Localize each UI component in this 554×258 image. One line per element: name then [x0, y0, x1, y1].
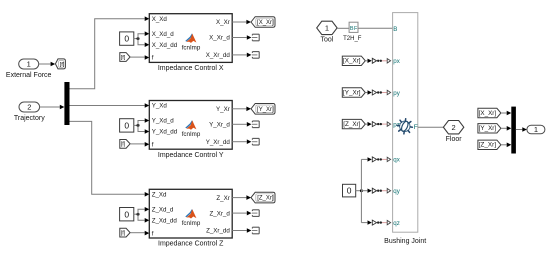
svg-text:F: F — [414, 124, 418, 131]
PS converter (qx) — [368, 157, 391, 162]
svg-text:External Force: External Force — [6, 72, 52, 79]
from [Z_Xr] to mux — [478, 140, 501, 149]
demux — [64, 82, 69, 125]
bushing port qy — [393, 188, 400, 195]
svg-text:Y_Xd: Y_Xd — [152, 103, 168, 110]
wire from to mux ([Y_Xr]) — [501, 126, 511, 131]
svg-text:[f]: [f] — [121, 231, 126, 237]
svg-text:[f]: [f] — [121, 142, 126, 148]
wire constant 0 to Z_Xd_d / Z_Xd_dd — [134, 207, 150, 223]
inport 2 Trajectory — [14, 102, 45, 122]
svg-text:Z_Xd_dd: Z_Xd_dd — [152, 218, 178, 225]
PS converter (pz) — [368, 122, 391, 127]
svg-text:2: 2 — [452, 123, 456, 132]
from f (Z axis) — [120, 228, 130, 237]
PS converter (qz) — [368, 220, 391, 225]
svg-text:0: 0 — [124, 34, 129, 44]
connection port Tool — [317, 21, 337, 43]
svg-text:X_Xr: X_Xr — [216, 19, 230, 26]
svg-text:[f]: [f] — [121, 55, 126, 61]
svg-text:[Z_Xr]: [Z_Xr] — [479, 142, 496, 149]
wire mux to outport 1 — [516, 127, 527, 132]
constant 0 (Y axis) — [120, 119, 134, 132]
svg-text:fcnImp: fcnImp — [182, 44, 201, 51]
wire Z_Xr_dd to terminator — [232, 228, 251, 233]
svg-text:Trajectory: Trajectory — [14, 115, 45, 122]
outport 1 — [527, 125, 545, 134]
wire bushing F to Floor — [418, 126, 444, 128]
from f (X axis) — [120, 53, 130, 62]
bushing port qx — [393, 157, 400, 164]
wire Y_Xr_dd to terminator — [232, 139, 251, 144]
svg-text:T2H_F: T2H_F — [343, 36, 362, 42]
svg-text:Impedance Control X: Impedance Control X — [158, 65, 224, 72]
svg-text:0: 0 — [347, 186, 352, 196]
svg-text:fcnImp: fcnImp — [182, 131, 201, 138]
bushing port pz — [393, 121, 400, 128]
wire demux to Impedance Control Y — [70, 103, 150, 108]
bushing joint block — [384, 13, 426, 245]
wire from to converter (py) — [365, 92, 367, 94]
wire Y_Xr to goto — [232, 107, 251, 112]
goto Z_Xr — [251, 192, 275, 203]
svg-text:Y_Xr_dd: Y_Xr_dd — [206, 139, 231, 146]
svg-text:Y_Xd_dd: Y_Xd_dd — [152, 129, 178, 136]
from f (Y axis) — [120, 140, 130, 149]
wire inport1 to goto f — [39, 62, 56, 67]
svg-text:f: f — [152, 55, 154, 62]
from [X_Xr] to mux — [478, 108, 501, 117]
wire demux to Impedance Control X — [70, 16, 150, 88]
svg-text:py: py — [393, 90, 400, 97]
svg-text:1: 1 — [325, 24, 329, 33]
svg-text:[Z_Xr]: [Z_Xr] — [343, 121, 360, 128]
inport 1 External Force — [6, 59, 52, 79]
svg-text:Floor: Floor — [446, 136, 463, 143]
wire constant 0 to q converters — [356, 159, 368, 222]
svg-text:Z_Xr_dd: Z_Xr_dd — [206, 228, 230, 235]
svg-text:[X_Xr]: [X_Xr] — [343, 58, 361, 65]
bushing port qz — [393, 220, 400, 227]
svg-text:qy: qy — [393, 188, 400, 195]
svg-text:f: f — [152, 142, 154, 149]
wire from to mux ([Z_Xr]) — [501, 143, 511, 148]
svg-text:X_Xr_d: X_Xr_d — [209, 35, 230, 42]
svg-text:[X_Xr]: [X_Xr] — [479, 110, 497, 117]
wire from to mux ([X_Xr]) — [501, 111, 511, 116]
svg-text:Z_Xr_d: Z_Xr_d — [210, 210, 231, 217]
PS converter (py) — [368, 90, 391, 95]
constant 0 (Z axis) — [120, 208, 134, 221]
svg-text:X_Xr_dd: X_Xr_dd — [206, 52, 231, 59]
wire constant 0 to X_Xd_d / X_Xd_dd — [134, 31, 150, 47]
svg-text:fcnImp: fcnImp — [182, 220, 201, 227]
terminator Y_Xr_dd — [252, 138, 259, 145]
constant 0 (bushing q inputs) — [343, 184, 356, 197]
terminator Y_Xr_d — [252, 121, 259, 128]
wire Z_Xr_d to terminator — [232, 211, 251, 216]
rigid transform T2H_F — [343, 22, 362, 42]
wire from-f to Z f input — [130, 231, 149, 236]
wire X_Xr_dd to terminator — [232, 53, 251, 58]
from [X_Xr] to px — [342, 56, 365, 65]
bushing port px — [393, 58, 400, 65]
svg-text:Z_Xr: Z_Xr — [216, 195, 229, 202]
wire X_Xr_d to terminator — [232, 35, 251, 40]
svg-text:Y_Xr_d: Y_Xr_d — [209, 122, 230, 129]
svg-text:Y_Xd_d: Y_Xd_d — [152, 118, 175, 125]
svg-text:Tool: Tool — [320, 37, 333, 44]
bushing joint gimbal icon — [397, 119, 412, 134]
from [Y_Xr] to py — [342, 88, 365, 97]
svg-text:X_Xd_d: X_Xd_d — [152, 31, 175, 38]
wire Z_Xr to goto — [232, 195, 251, 200]
terminator Z_Xr_dd — [252, 227, 259, 234]
from [Z_Xr] to pz — [342, 119, 365, 128]
mux — [511, 107, 516, 154]
goto Y_Xr — [251, 104, 275, 115]
wire from-f to X f input — [130, 55, 149, 60]
svg-text:Impedance Control Y: Impedance Control Y — [158, 152, 224, 159]
svg-text:[Y_Xr]: [Y_Xr] — [257, 107, 274, 113]
svg-text:[Y_Xr]: [Y_Xr] — [343, 89, 361, 96]
svg-text:2: 2 — [27, 103, 31, 112]
connection port Floor — [443, 121, 463, 144]
from [Y_Xr] to mux — [478, 124, 501, 133]
wire Y_Xr_d to terminator — [232, 122, 251, 127]
svg-text:X_Xd: X_Xd — [152, 16, 168, 23]
svg-text:Z_Xd_d: Z_Xd_d — [152, 207, 174, 214]
goto X_Xr — [251, 17, 275, 28]
svg-text:Bushing Joint: Bushing Joint — [384, 238, 426, 245]
wire demux to Impedance Control Z — [70, 121, 150, 196]
svg-text:0: 0 — [124, 209, 129, 219]
terminator X_Xr_dd — [252, 52, 259, 59]
svg-text:f: f — [152, 230, 154, 237]
goto f — [55, 59, 65, 69]
bushing port py — [393, 90, 400, 97]
svg-text:Z_Xd: Z_Xd — [152, 192, 167, 199]
svg-text:0: 0 — [124, 121, 129, 131]
svg-text:B: B — [393, 26, 397, 33]
subsystem Impedance Control X — [149, 14, 232, 72]
wire inport2 to demux — [40, 105, 65, 110]
subsystem Impedance Control Z — [149, 189, 232, 247]
wire constant 0 to Y_Xd_d / Y_Xd_dd — [134, 118, 150, 134]
terminator X_Xr_d — [252, 34, 259, 41]
wire Tool to T2H_F — [337, 27, 349, 29]
subsystem Impedance Control Y — [149, 101, 232, 159]
PS converter (px) — [368, 58, 391, 63]
svg-text:qx: qx — [393, 157, 400, 164]
svg-text:Impedance Control Z: Impedance Control Z — [158, 241, 224, 248]
svg-text:Y_Xr: Y_Xr — [216, 106, 230, 113]
wire from-f to Y f input — [130, 142, 149, 147]
svg-text:px: px — [393, 58, 400, 65]
constant 0 (X axis) — [120, 32, 134, 45]
svg-text:1: 1 — [27, 60, 31, 69]
svg-text:1: 1 — [534, 125, 538, 134]
svg-text:[X_Xr]: [X_Xr] — [257, 20, 274, 26]
svg-text:[Y_Xr]: [Y_Xr] — [479, 125, 497, 132]
wire from to converter (pz) — [365, 123, 367, 125]
wire T2H_F to bushing B port — [358, 27, 393, 29]
svg-text:X_Xd_dd: X_Xd_dd — [152, 42, 178, 49]
svg-text:[f]: [f] — [60, 62, 65, 68]
svg-text:qz: qz — [393, 220, 400, 227]
wire from to converter (px) — [365, 60, 367, 62]
svg-text:[Z_Xr]: [Z_Xr] — [257, 196, 274, 202]
wire X_Xr to goto — [232, 20, 251, 25]
PS converter (qy) — [368, 188, 391, 193]
terminator Z_Xr_d — [252, 210, 259, 217]
